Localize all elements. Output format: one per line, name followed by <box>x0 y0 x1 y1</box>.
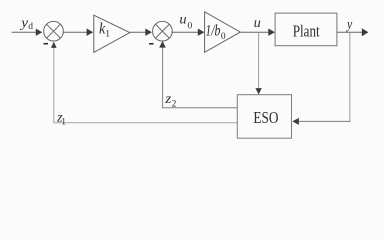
minus sign at junction 1 <box>44 43 49 45</box>
svg-text:1/b: 1/b <box>205 23 220 40</box>
svg-text:ESO: ESO <box>253 108 278 127</box>
gain block k1 (triangle) <box>94 15 130 52</box>
arrowhead output y <box>362 28 369 36</box>
svg-text:1: 1 <box>61 117 66 127</box>
wire: z2 feedback from ESO left to summing junction 2 <box>163 47 238 108</box>
Plant block <box>275 13 337 46</box>
svg-text:2: 2 <box>172 99 177 109</box>
svg-text:0: 0 <box>188 22 193 32</box>
arrowhead into gain k1 <box>87 29 94 36</box>
ESO block <box>237 95 291 139</box>
arrowhead z2 up into junction 2 <box>159 41 166 48</box>
wire: u tap down to ESO top <box>258 32 260 88</box>
wire: input yd to summing junction 1 <box>12 31 37 33</box>
wire: z1 feedback from ESO left to summing junction 1 <box>54 47 238 123</box>
svg-text:d: d <box>28 22 33 32</box>
svg-text:u: u <box>254 16 261 31</box>
svg-text:y: y <box>345 17 353 32</box>
minus sign at junction 2 <box>149 43 154 45</box>
svg-text:1: 1 <box>105 29 110 39</box>
arrowhead u down into ESO top <box>255 88 261 94</box>
arrowhead into Plant <box>268 29 275 36</box>
arrowhead z1 up into junction 1 <box>51 42 57 48</box>
svg-text:Plant: Plant <box>293 21 320 40</box>
wire: Plant output to y arrow <box>337 31 362 33</box>
svg-text:u: u <box>179 12 186 27</box>
wire: summing junction 1 to gain k1 <box>63 31 87 33</box>
wire: y tap down to ESO level <box>349 32 351 122</box>
wire: y feedback left into ESO right side <box>299 120 350 122</box>
wire: gain 1/b0 to Plant <box>240 31 268 33</box>
arrowhead into summing junction 1 <box>36 29 42 36</box>
wire: summing junction 2 to gain 1/b0 <box>172 31 198 33</box>
wire: gain k1 to summing junction 2 <box>130 31 146 33</box>
summing junction 1 <box>44 21 64 41</box>
svg-text:0: 0 <box>221 32 226 42</box>
summing junction 2 <box>153 21 173 41</box>
arrowhead y left into ESO right <box>292 118 299 125</box>
arrowhead into summing junction 2 <box>145 29 152 36</box>
arrowheads <box>36 28 369 125</box>
gain block 1/b0 (triangle) <box>205 12 241 53</box>
arrowhead into gain 1/b0 <box>198 29 205 36</box>
